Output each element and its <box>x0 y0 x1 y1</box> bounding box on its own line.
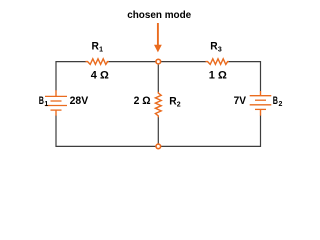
svg-text:B: B <box>273 95 278 107</box>
svg-text:2 Ω: 2 Ω <box>134 95 151 107</box>
svg-text:2: 2 <box>279 101 283 108</box>
wire: bottom rail with left and right risers <box>56 116 261 147</box>
wire: middle branch top (node to R2) <box>157 62 159 93</box>
annotation arrow (chosen mode) <box>154 23 162 52</box>
svg-text:1: 1 <box>44 101 48 108</box>
node: bottom junction <box>156 144 161 149</box>
svg-text:1 Ω: 1 Ω <box>209 70 227 82</box>
resistor R1 (4 ohm) zigzag <box>86 59 109 65</box>
svg-text:chosen mode: chosen mode <box>127 10 191 21</box>
wire: middle branch bottom (R2 to node) <box>157 117 159 147</box>
svg-text:3: 3 <box>218 47 222 54</box>
resistor R2 (2 ohm) vertical zigzag <box>155 92 161 118</box>
svg-text:2: 2 <box>177 101 181 108</box>
battery B2 (7V) <box>250 91 272 116</box>
svg-text:28V: 28V <box>70 95 89 107</box>
svg-text:B: B <box>39 95 44 107</box>
svg-text:7V: 7V <box>234 95 247 107</box>
svg-text:R: R <box>169 95 177 107</box>
resistor R3 (1 ohm) zigzag <box>206 59 229 65</box>
wire: top middle segment between R1 and R3 <box>107 61 207 63</box>
svg-text:R: R <box>210 41 218 53</box>
node: top junction <box>156 59 161 64</box>
svg-text:4 Ω: 4 Ω <box>91 70 109 82</box>
svg-text:1: 1 <box>99 47 103 54</box>
battery B1 (28V) <box>45 90 67 116</box>
svg-text:R: R <box>92 41 100 53</box>
wire: top-right segment + right branch top <box>228 62 261 92</box>
wire: left branch top + top-left segment <box>56 62 87 91</box>
